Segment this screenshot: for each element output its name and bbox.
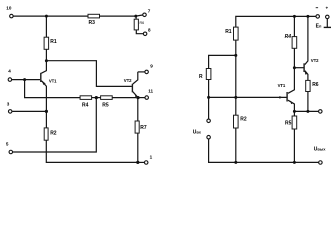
svg-text:Uвх: Uвх bbox=[193, 129, 202, 135]
svg-text:R2: R2 bbox=[240, 117, 247, 123]
svg-text:R6: R6 bbox=[140, 21, 145, 25]
svg-text:R: R bbox=[199, 74, 203, 80]
svg-text:R1: R1 bbox=[50, 39, 57, 45]
svg-text:+: + bbox=[326, 5, 329, 10]
svg-text:4: 4 bbox=[8, 69, 11, 74]
svg-text:VT2: VT2 bbox=[311, 58, 319, 63]
svg-text:7: 7 bbox=[148, 8, 151, 13]
svg-text:R4: R4 bbox=[285, 34, 292, 40]
svg-text:8: 8 bbox=[148, 27, 151, 32]
svg-text:VT2: VT2 bbox=[124, 78, 132, 83]
svg-text:1: 1 bbox=[150, 154, 153, 159]
svg-text:R6: R6 bbox=[312, 82, 319, 88]
svg-text:R4: R4 bbox=[82, 102, 89, 108]
svg-text:3: 3 bbox=[7, 102, 10, 107]
svg-text:5: 5 bbox=[6, 142, 9, 147]
svg-text:Uвых: Uвых bbox=[314, 147, 327, 153]
svg-text:R5: R5 bbox=[285, 120, 292, 126]
svg-text:R5: R5 bbox=[102, 102, 109, 108]
svg-text:VT1: VT1 bbox=[49, 79, 57, 84]
svg-text:R1: R1 bbox=[225, 29, 232, 35]
svg-text:Eп: Eп bbox=[316, 23, 322, 29]
svg-text:R2: R2 bbox=[50, 130, 57, 136]
svg-text:R7: R7 bbox=[140, 125, 147, 131]
svg-text:10: 10 bbox=[6, 6, 12, 11]
svg-text:R3: R3 bbox=[89, 20, 96, 26]
svg-text:9: 9 bbox=[150, 64, 153, 69]
svg-text:11: 11 bbox=[148, 89, 153, 94]
svg-text:VT1: VT1 bbox=[278, 83, 286, 88]
